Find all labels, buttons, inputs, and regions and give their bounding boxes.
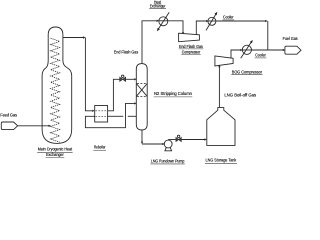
reboiler box xyxy=(95,106,108,123)
wire cooler1 to fuel junction xyxy=(216,20,266,22)
wire valve to tank xyxy=(181,139,204,141)
svg-text:Exchanger: Exchanger xyxy=(46,151,64,156)
main cryogenic heat exchanger vessel xyxy=(42,27,72,143)
BOG compressor xyxy=(215,56,233,66)
cooler C1 xyxy=(208,17,216,25)
LNG rundown pump xyxy=(164,140,172,148)
wire reboiler lower-right to column (gap at crossing) xyxy=(108,115,124,117)
wire tank BOG to compressor xyxy=(218,67,220,107)
wire HX to EFG compressor xyxy=(168,21,183,33)
svg-text:Reboiler: Reboiler xyxy=(94,145,106,150)
wire EFG compressor to cooler1 xyxy=(196,21,206,35)
wire feed gas to MCHE xyxy=(18,125,49,127)
MCHE internal coil xyxy=(51,38,60,142)
svg-text:Cooler: Cooler xyxy=(223,14,234,19)
valve V2 xyxy=(176,138,181,142)
valve V1 xyxy=(120,77,126,81)
wire cooler2 to fuel gas flag xyxy=(251,49,283,51)
LNG storage tank xyxy=(207,108,235,146)
end flash gas compressor xyxy=(179,33,200,42)
svg-text:N2 Stripping Column: N2 Stripping Column xyxy=(154,91,192,96)
wire MCHE outlet to reboiler xyxy=(63,37,83,39)
N2 stripping column xyxy=(136,64,147,130)
wire column bottom to pump xyxy=(141,130,143,142)
feed gas flag xyxy=(1,122,17,130)
wire reboiler upper out to valve to column xyxy=(108,79,120,111)
heat exchanger circle U-HX xyxy=(159,20,168,22)
cooler C2 xyxy=(242,45,251,54)
svg-text:Feed Gas: Feed Gas xyxy=(0,112,17,117)
wire reboiler lower-left loop to column xyxy=(85,103,134,127)
svg-text:Main Cryogenic Heat: Main Cryogenic Heat xyxy=(38,146,73,151)
svg-text:Cooler: Cooler xyxy=(255,52,266,57)
wire BOG compressor to cooler2 xyxy=(231,50,241,58)
svg-text:LNG Storage Tank: LNG Storage Tank xyxy=(206,157,238,162)
svg-text:Fuel Gas: Fuel Gas xyxy=(283,35,298,40)
svg-text:LNG Boil-off Gas: LNG Boil-off Gas xyxy=(224,92,256,97)
fuel gas flag xyxy=(285,46,301,54)
svg-text:LNG Rundown Pump: LNG Rundown Pump xyxy=(151,158,185,164)
wire column top to HX xyxy=(142,21,157,64)
svg-text:BOG Compressor: BOG Compressor xyxy=(232,69,263,74)
svg-text:End Flash Gas: End Flash Gas xyxy=(114,49,138,54)
svg-text:End Flash Gas: End Flash Gas xyxy=(179,43,203,48)
svg-text:Compressor: Compressor xyxy=(182,49,201,55)
svg-text:Exchanger: Exchanger xyxy=(150,3,166,9)
